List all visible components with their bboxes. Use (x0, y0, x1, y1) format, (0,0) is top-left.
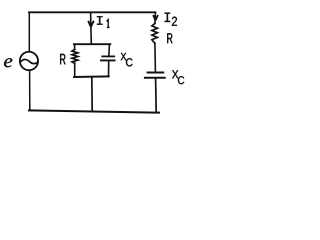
parallel combo top bar (74, 43, 110, 45)
wire middle branch lower (91, 77, 93, 112)
wire right branch mid (154, 43, 157, 71)
label I2 (165, 13, 171, 22)
label R (middle) (60, 54, 65, 64)
capacitor XC (middle) bottom plate (101, 59, 115, 61)
label XC (right) C (178, 76, 184, 84)
label I2 subscript 2 (172, 17, 177, 26)
label XC (right) X (172, 70, 178, 78)
label R (right) (167, 33, 172, 43)
wire right branch upper (154, 12, 157, 23)
wire left upper (28, 12, 30, 51)
resistor R (middle) zigzag (72, 49, 78, 63)
arrow I1 (88, 21, 94, 27)
label XC (middle) X (121, 53, 127, 60)
wire right branch lower (155, 79, 158, 113)
label XC (middle) C (126, 58, 133, 66)
capacitor XC (middle) top plate (102, 55, 114, 57)
wire middle branch upper (90, 13, 93, 44)
wire bottom (29, 110, 159, 112)
capacitor XC (middle) bottom stub (108, 61, 110, 76)
source e sine wave (20, 59, 38, 63)
label I1 subscript 1 (107, 20, 110, 28)
capacitor XC (middle) top stub (108, 44, 111, 56)
source e (AC) circle (20, 52, 38, 70)
capacitor XC (right) bottom plate (145, 77, 165, 79)
wire left lower (29, 71, 31, 111)
capacitor XC (right) top plate (148, 72, 164, 74)
label e (4, 58, 12, 67)
resistor R (right) zigzag (152, 24, 158, 44)
parallel combo bottom bar (74, 75, 109, 78)
left rail top (74, 44, 76, 49)
label I1 (97, 16, 103, 25)
arrow I2 (153, 15, 158, 20)
wire top (29, 11, 155, 13)
left rail bottom (74, 63, 76, 77)
